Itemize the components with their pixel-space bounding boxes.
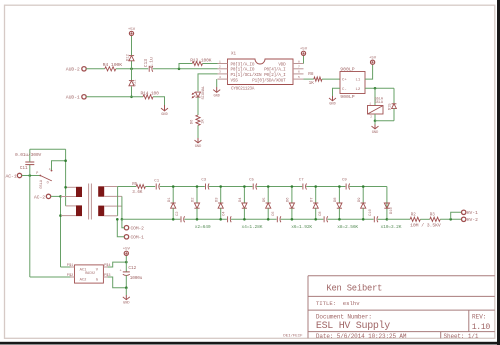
diode D15 flyback [393,88,395,103]
supply +5V (VDD) [301,51,305,55]
node junction AUD-1/D11/R14 [130,96,133,99]
wire secondary to R5 [118,186,137,188]
wire top rail end down [386,187,388,220]
svg-text:3: 3 [219,71,221,74]
svg-text:D7: D7 [310,197,314,202]
wire AC-2 rail [60,196,62,267]
connector HV-2 [462,217,466,221]
node junction top rail [267,185,270,188]
wire top rail [306,186,345,188]
svg-text:1000u: 1000u [130,276,143,281]
power module U1 RAC02 [75,265,104,283]
node junction top rail [338,185,341,188]
svg-text:GND: GND [372,131,378,135]
pin P$4 [103,266,107,268]
wire [86,68,105,70]
svg-text:P0[3]/A_IO: P0[3]/A_IO [231,62,255,67]
node junction bottom rail [362,218,365,221]
svg-text:C1: C1 [154,179,159,183]
svg-text:+5V: +5V [128,28,136,32]
wire secondary link B [121,196,123,219]
node junction C12/ground [125,286,128,289]
svg-text:D9: D9 [358,197,362,202]
node junction secondary/bottom rail [121,218,124,221]
wire [451,212,462,219]
wire AC-1 rail down [29,176,31,278]
node junction bottom rail [219,218,222,221]
svg-text:x2=640: x2=640 [195,224,211,230]
node junction bottom rail [243,218,246,221]
diode D4 [243,187,245,203]
pin 6 P0[2]/A_I [293,73,304,75]
wire [179,64,192,69]
resistor R4 100K [105,67,116,71]
pin P$2 [70,276,74,278]
wire V out to +5V node [108,262,127,267]
wire top rail [209,186,253,188]
relay contact S1 G5LA [39,175,41,177]
LED D14 SIGNAL [196,96,201,98]
svg-text:AUD-1: AUD-1 [66,95,80,101]
wire [197,125,199,138]
svg-text:1K: 1K [202,119,206,124]
svg-text:VDD: VDD [278,62,286,67]
wire L1 to +5V [365,64,373,79]
connector AUD-1 [82,95,86,99]
capacitor C6 [276,216,278,222]
node junction top rail [243,185,246,188]
svg-text:Document Number:: Document Number: [316,313,372,320]
wire [203,63,218,65]
svg-text:R5: R5 [132,183,138,187]
svg-text:Ken Seibert: Ken Seibert [326,283,382,293]
svg-text:C12: C12 [128,266,136,271]
diode D2 [196,187,198,203]
svg-text:HV-1: HV-1 [467,210,478,216]
svg-text:D5: D5 [263,197,267,202]
capacitor C13 0.1u [148,66,150,72]
wire VDD to +5V [303,55,305,63]
capacitor C5 [252,184,254,190]
pin 4 VSS [218,78,228,80]
node junction primary parallel [59,214,62,217]
capacitor C9 [345,184,347,190]
wire pin3 to LED [198,74,218,91]
svg-text:900LP: 900LP [340,94,355,100]
capacitor C7 [302,184,304,190]
svg-text:G5LA: G5LA [375,101,384,105]
pin 8 VDD [293,63,304,65]
svg-text:C9: C9 [342,179,347,183]
capacitor C8 [323,216,325,222]
diode D12 [129,55,134,57]
svg-text:D11: D11 [134,79,138,87]
node junction top rail [291,185,294,188]
svg-text:C8: C8 [319,211,323,216]
svg-text:+5V: +5V [300,48,308,52]
node junction bottom rail [196,218,199,221]
svg-text:C13: C13 [143,59,149,68]
node junction HV split [449,218,452,221]
pin 3 P1[1]/SCL/XIN [218,73,228,75]
resistor R14 100 [143,95,153,99]
svg-text:D3: D3 [215,197,219,202]
svg-text:3.6K: 3.6K [132,191,143,195]
wire [375,120,394,122]
svg-text:CY8C21123A: CY8C21123A [231,87,255,91]
wire bottom rail [327,218,373,220]
svg-text:x8=2.56K: x8=2.56K [337,224,358,230]
svg-text:AUD-2: AUD-2 [66,67,80,73]
wire [116,68,148,70]
svg-text:D1: D1 [168,197,172,202]
connector AUD-2 [82,67,86,71]
svg-text:AC2: AC2 [80,278,88,282]
svg-text:R2: R2 [411,214,417,218]
svg-text:D10: D10 [390,206,394,214]
diode D1 [172,187,174,203]
wire [122,219,124,227]
svg-text:5: 5 [298,76,300,79]
svg-text:1: 1 [219,60,221,63]
svg-text:COM-1: COM-1 [131,235,145,241]
wire switch to rail [52,161,66,170]
svg-text:8: 8 [298,60,300,63]
diode D7 [315,187,317,203]
svg-text:4: 4 [219,76,221,79]
svg-text:RAC02: RAC02 [85,271,95,275]
svg-text:ESL HV Supply: ESL HV Supply [316,320,390,332]
ground [332,96,334,101]
diode D5 [267,187,269,203]
wire [65,149,67,206]
diode D3 [220,187,222,203]
svg-text:C4: C4 [223,211,227,216]
wire [153,97,165,105]
capacitor C4 [227,216,229,222]
svg-text:R13 100K: R13 100K [190,57,212,63]
svg-text:4: 4 [49,168,51,171]
svg-text:P1[1]/SCL/XIN: P1[1]/SCL/XIN [231,73,263,78]
svg-text:0.1u: 0.1u [149,57,155,68]
svg-text:D6: D6 [191,119,195,124]
wire [374,121,376,125]
wire G to ground node [108,277,127,288]
IC X1 CY8C21123A [228,59,294,85]
ground [216,87,218,92]
capacitor C2 [180,216,182,222]
wire [117,219,124,237]
svg-text:x4=1.28K: x4=1.28K [242,224,263,230]
transformer T1 secondary winding 2 [98,206,104,217]
wire [387,218,410,220]
supply +5V (audio clamp) [129,31,133,35]
ground [374,125,376,129]
svg-text:O: O [47,181,49,185]
wire to U1 AC2 [30,276,75,278]
svg-text:R8: R8 [308,72,314,77]
node junction rail/primary1 [64,186,67,189]
coupler U2 900LP [340,72,365,94]
svg-text:C6: C6 [272,211,276,216]
wire bottom rail [378,218,387,220]
ground [197,138,199,143]
svg-text:7: 7 [298,66,300,69]
wire [322,78,340,80]
title block frame [307,276,309,339]
supply +5V (U1 output) [125,255,127,262]
svg-text:AC-2: AC-2 [34,194,45,200]
wire bottom rail [231,218,277,220]
wire to U1 AC1 [61,266,75,268]
svg-text:GND: GND [123,302,129,306]
wire [125,288,127,295]
wire top rail [349,186,387,188]
svg-text:REV:: REV: [472,313,486,320]
node junction C13/R13 [178,68,181,71]
diode D8 [338,187,340,203]
svg-text:Date: 5/6/2014 10:23:25 AM: Date: 5/6/2014 10:23:25 AM [316,333,407,340]
ground [125,295,127,300]
svg-text:SIGNAL: SIGNAL [202,85,206,99]
pin 7 P0[4]/A_I [293,68,304,70]
wire [374,114,376,121]
svg-text:C7: C7 [299,179,304,183]
node junction rail/switch [64,159,67,162]
svg-text:Sheet: 1/1: Sheet: 1/1 [444,333,479,340]
wire [22,175,40,177]
node junction bottom rail [291,218,294,221]
connector COM-1 [124,235,128,239]
node junction L2/coil/D15 [374,87,377,90]
pin 5 P1[0]/SDA/XOUT [293,78,304,80]
wire secondary link A [117,187,119,216]
transformer T1 secondary winding 1 [98,186,104,196]
svg-text:C+: C+ [342,79,347,83]
svg-text:VSS: VSS [231,78,239,83]
svg-text:L1: L1 [356,79,361,83]
node junction top rail [196,185,199,188]
wire top rail [257,186,303,188]
svg-text:eslhv: eslhv [343,300,360,307]
wire bottom rail [184,218,227,220]
node junction top rail [362,185,365,188]
svg-text:C10: C10 [369,208,373,216]
wire L2 to relay [365,87,394,89]
svg-text:10M / 3.5KV: 10M / 3.5KV [410,223,441,229]
capacitor C12 1000u [125,262,127,271]
svg-text:C5: C5 [249,179,254,183]
wire [131,61,133,69]
resistor R8 1K [314,77,322,81]
wire [197,97,199,115]
wire bottom rail [281,218,324,220]
wire VSS to ground [216,79,218,87]
svg-text:1K: 1K [309,81,315,86]
svg-text:900LP: 900LP [340,67,355,73]
svg-text:P0[2]/A_I: P0[2]/A_I [264,73,286,78]
wire [30,148,66,150]
svg-text:1.10: 1.10 [472,323,491,332]
wire [153,68,218,70]
svg-text:P1[0]/SDA/XOUT: P1[0]/SDA/XOUT [252,78,286,83]
capacitor C3 [205,184,207,190]
node junction bottom rail [338,218,341,221]
svg-text:R4 100K: R4 100K [103,62,123,68]
wire C- to ground [333,88,341,96]
svg-text:C3: C3 [201,179,206,183]
resistor R3 10M [430,217,440,221]
transformer T1 core [88,184,90,220]
node junction bottom rail [267,218,270,221]
node junction bottom rail [172,218,175,221]
node junction AC-2/primary [59,195,62,198]
svg-text:P$2: P$2 [67,273,73,278]
node junction AC-1/C11 [29,174,32,177]
svg-text:GND: GND [329,103,335,107]
svg-text:+5V: +5V [369,57,377,61]
node junction +5V/C12 [125,261,128,264]
node junction top rail [172,185,175,188]
svg-text:P$1: P$1 [67,263,73,268]
svg-text:P0[1]/A_IO: P0[1]/A_IO [231,68,255,73]
svg-text:C11: C11 [20,166,28,171]
svg-text:GND: GND [161,113,167,117]
svg-text:R3: R3 [430,214,436,218]
pin P$3 [103,276,107,278]
connector AC-2 [46,194,50,198]
svg-text:D4: D4 [239,197,243,202]
node junction AUD-2/R4/D11/D12/C13 [130,68,133,71]
wire [374,88,376,105]
pin 1 P0[3]/A_IO [218,63,228,65]
svg-text:GND: GND [213,94,219,98]
wire [131,35,133,55]
connector HV-1 [462,210,466,214]
svg-text:TITLE:: TITLE: [316,300,336,307]
svg-text:D8: D8 [334,197,338,202]
node junction bottom rail [314,218,317,221]
wire [145,186,155,188]
resistor R13 100K [192,61,202,65]
svg-text:6: 6 [298,71,300,74]
diode D9 [362,187,364,203]
svg-text:+5V: +5V [123,248,131,252]
svg-text:L2: L2 [356,88,361,92]
svg-text:HV-2: HV-2 [467,217,478,223]
node junction bottom rail end [386,218,389,221]
pin P$1 [70,266,74,268]
svg-text:D2: D2 [192,197,196,202]
ground [164,105,166,111]
transformer T1 primary winding 2 [66,205,76,207]
node junction top rail [314,185,317,188]
diode D10 [384,207,389,209]
node junction COM-1/bottom rail [116,218,119,221]
supply +5V (relay) [371,60,375,64]
pin 2 P0[1]/A_IO [218,68,228,70]
svg-text:D12: D12 [127,53,131,61]
node junction top rail [219,185,222,188]
transformer T1 primary winding 1 [66,186,76,188]
svg-text:R14 100: R14 100 [141,90,160,96]
svg-text:X1: X1 [231,53,237,57]
resistor R2 10M [410,217,420,221]
svg-text:D6: D6 [287,197,291,202]
wire [160,186,205,188]
svg-text:x10=3.2K: x10=3.2K [381,224,402,230]
capacitor C11 0.01u/300V [29,165,31,176]
wire [420,218,430,220]
capacitor C1 [155,184,157,190]
svg-text:AC-1: AC-1 [6,173,17,179]
wire [440,218,461,220]
diode D6 [291,187,293,203]
node junction coil/D15/ground [374,120,377,123]
svg-text:C2: C2 [176,211,180,216]
svg-text:P0[4]/A_I: P0[4]/A_I [264,68,286,73]
svg-text:x6=1.92K: x6=1.92K [291,224,312,230]
connector COM-2 [124,226,128,230]
svg-text:C-: C- [342,88,347,92]
wire [86,96,143,98]
svg-text:P: P [36,172,38,176]
svg-text:COM-2: COM-2 [131,226,145,232]
resistor R6 1K [196,115,200,125]
wire bottom rail [122,218,180,220]
connector AC-1 [17,173,21,177]
wire [51,195,61,197]
svg-text:2: 2 [219,66,221,69]
diode D11 [131,69,133,80]
svg-text:DEI/FEIF: DEI/FEIF [283,334,303,339]
relay K1 G5LA coil [368,106,384,115]
svg-text:G5LA: G5LA [40,179,44,188]
capacitor C10 [373,216,375,222]
svg-text:GND: GND [195,145,201,149]
svg-text:0.01u/300V: 0.01u/300V [15,152,41,158]
svg-text:D15: D15 [388,103,392,111]
wire pin5 to R8 [304,78,314,80]
resistor R5 3.6K [136,185,145,189]
